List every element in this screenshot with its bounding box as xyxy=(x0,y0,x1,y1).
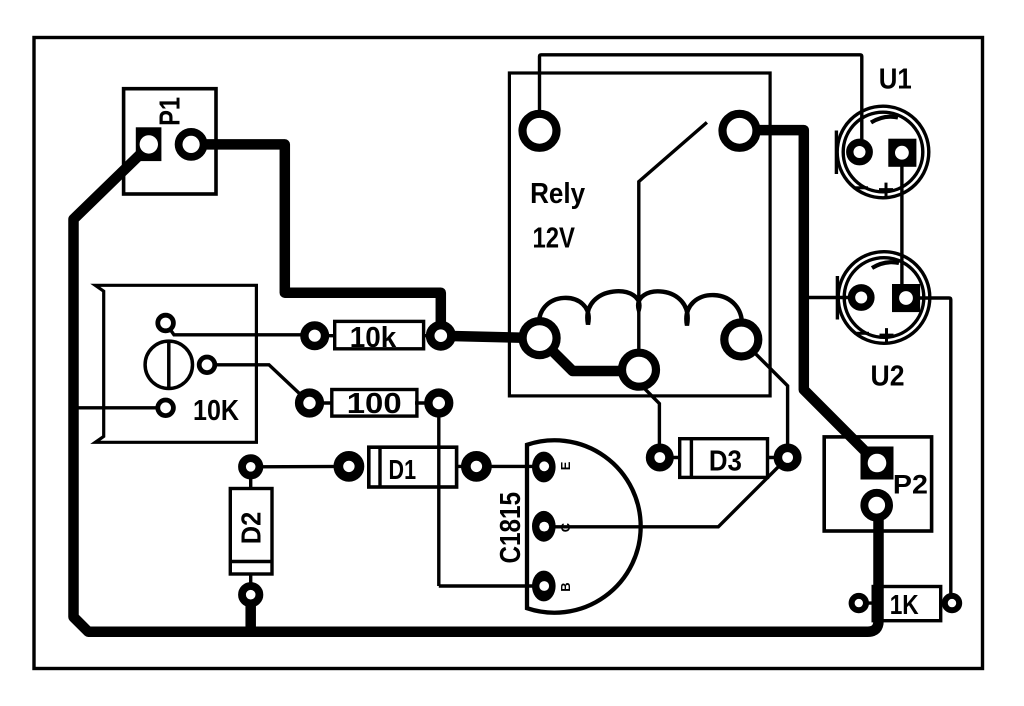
U2 positive square pad xyxy=(892,284,920,312)
resistor R2 100 xyxy=(299,388,449,420)
svg-text:10k: 10k xyxy=(350,322,397,354)
pot adjuster screw xyxy=(145,341,192,388)
U2 minus mark xyxy=(855,332,870,335)
Q1 pad B xyxy=(532,571,556,602)
diode D1 xyxy=(338,447,487,487)
wire thick trace: relay top-right pad to P2 square pad xyxy=(740,130,877,463)
P2 pin 2 round pad xyxy=(864,493,889,518)
relay coil pad left xyxy=(523,321,557,355)
D2 top pad xyxy=(242,458,259,475)
D1 cathode band xyxy=(378,447,381,487)
U1 flat edge mark xyxy=(835,131,838,175)
transistor Q1 C1815 xyxy=(495,440,641,612)
wire thin: 100 right pad down to B wire junction xyxy=(437,403,440,586)
wire thin: transistor B pad to junction left xyxy=(439,584,545,587)
D2 cathode band xyxy=(230,560,272,563)
wire lead stubs between pads and component bodies xyxy=(251,336,875,603)
wire thin: pot bottom pad to left rail xyxy=(74,406,166,409)
svg-text:E: E xyxy=(558,461,573,470)
svg-text:Rely: Rely xyxy=(530,178,585,210)
wire thin: relay coil right pad to D3 right pad xyxy=(741,340,787,458)
svg-text:U2: U2 xyxy=(871,361,905,393)
U1 positive square pad xyxy=(888,139,916,167)
relay coil pad right xyxy=(724,323,758,357)
relay pad top-right xyxy=(723,114,757,148)
svg-text:B: B xyxy=(558,582,573,591)
D1 left pad xyxy=(338,456,359,477)
wire thick trace: P1 pin2 round pad to 10k right pad xyxy=(191,144,441,335)
svg-text:10K: 10K xyxy=(193,395,239,427)
relay coil pad middle xyxy=(622,353,656,387)
P1 pin 1 square pad xyxy=(136,127,162,161)
wire thin: relay switch arm xyxy=(639,122,707,369)
pot wiper pad xyxy=(199,357,215,373)
svg-text:C: C xyxy=(558,522,573,532)
wire thin: D2 top pad to D1 left pad xyxy=(251,465,350,469)
diode D2 xyxy=(230,458,272,603)
Q1 pad C xyxy=(532,511,556,542)
wire thick stub: D2 bottom pad to bottom bus xyxy=(245,595,256,632)
U2 negative round pad xyxy=(852,288,871,307)
P2 pin 1 square pad xyxy=(861,447,894,480)
pot bottom pad xyxy=(158,400,174,416)
1K right pad xyxy=(945,596,959,610)
100 left pad xyxy=(299,393,320,414)
wire thin: D3 right pad to transistor C pad xyxy=(544,458,787,527)
10k right pad xyxy=(430,325,451,346)
svg-text:C1815: C1815 xyxy=(495,492,527,564)
svg-text:D1: D1 xyxy=(389,454,417,485)
capacitor U2 xyxy=(837,252,929,393)
U1 negative round pad xyxy=(850,142,869,161)
wire thin: U1 square pad to U2 square pad xyxy=(900,153,903,285)
relay coil arcs xyxy=(539,291,742,331)
U1 plus mark xyxy=(879,183,893,197)
svg-text:P2: P2 xyxy=(893,469,928,499)
Q1 pad E xyxy=(532,452,556,483)
potentiometer RV1 10K xyxy=(95,285,256,442)
wire thin: D1 right pad to transistor E pad xyxy=(456,465,544,468)
svg-text:D3: D3 xyxy=(709,446,742,478)
wire thin: pot wiper pad to 100 left pad xyxy=(207,365,310,403)
connector P2 xyxy=(824,437,931,531)
svg-text:P1: P1 xyxy=(154,97,186,126)
U2 plus mark xyxy=(880,328,894,342)
svg-text:1K: 1K xyxy=(890,589,919,620)
connector P1 xyxy=(124,89,216,194)
D3 left pad xyxy=(650,448,669,467)
D3 right pad xyxy=(778,448,797,467)
svg-text:U1: U1 xyxy=(879,63,912,95)
P1 pin 2 round pad xyxy=(179,132,204,157)
U2 top arc mark xyxy=(872,262,899,268)
svg-text:12V: 12V xyxy=(532,222,575,254)
capacitor U1 xyxy=(836,63,928,197)
U1 minus mark xyxy=(854,186,869,189)
diode D3 xyxy=(650,439,797,478)
10k left pad xyxy=(304,325,325,346)
resistor R3 1K xyxy=(852,587,960,621)
100 right pad xyxy=(428,393,449,414)
resistor R1 10k xyxy=(304,321,451,354)
wire thin: relay top-left pad up and over to U1 left pad xyxy=(540,55,862,152)
svg-text:100: 100 xyxy=(347,388,402,420)
wire thick trace: 10k right pad to relay coil left pad xyxy=(441,336,540,338)
wire thin: U2 square pad right and down to 1K right pad xyxy=(920,298,951,603)
relay pad top-left xyxy=(523,114,557,148)
D2 bottom pad xyxy=(242,586,259,603)
wire thin: thick rail to U2 left pad xyxy=(804,296,861,299)
svg-text:D2: D2 xyxy=(236,512,267,545)
pot top pad xyxy=(158,315,174,331)
D3 cathode band xyxy=(690,439,693,478)
wire thin: relay coil middle pad to D3 left pad xyxy=(640,384,659,458)
relay RL1 Rely 12V xyxy=(509,73,770,396)
U2 flat edge mark xyxy=(836,276,839,320)
wire thick trace: P1 pin1 square pad down left rail along bottom bus up to P2 round pad xyxy=(74,146,879,632)
wire thick trace: relay coil left pad to coil middle pad xyxy=(540,338,639,371)
U1 top arc mark xyxy=(871,117,898,123)
wire thin: pot top pad to 10k left pad xyxy=(166,323,315,335)
D1 right pad xyxy=(466,456,487,477)
1K left pad xyxy=(852,596,866,610)
